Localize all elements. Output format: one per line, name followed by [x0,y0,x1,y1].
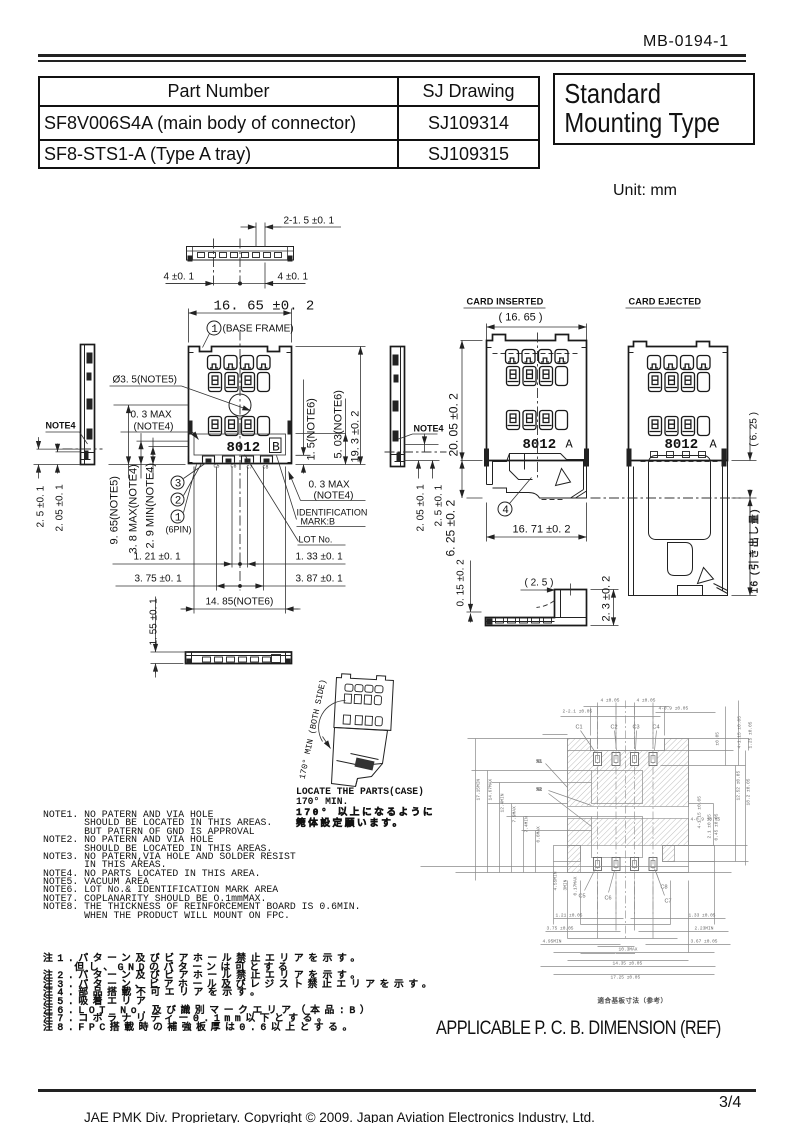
svg-text:A: A [566,438,574,452]
tilted connector body [334,674,394,731]
board outline [568,739,689,873]
svg-text:8012: 8012 [227,440,261,456]
svg-text:10.3MAX: 10.3MAX [619,947,638,953]
dim 16.65 top [189,299,315,343]
center line vertical [239,331,241,591]
svg-text:±0.05: ±0.05 [715,732,721,746]
svg-text:12.4MIN: 12.4MIN [500,793,506,812]
tray pulled out [629,461,728,596]
svg-text:18.2 ±0.05: 18.2 ±0.05 [746,778,752,805]
tray lower part [487,461,493,485]
svg-text:1. 55 ±0. 1: 1. 55 ±0. 1 [149,598,160,646]
svg-text:14. 85(NOTE6): 14. 85(NOTE6) [206,597,274,608]
svg-text:2-2.1 ±0.05: 2-2.1 ±0.05 [563,709,593,715]
svg-text:( 16. 65 ): ( 16. 65 ) [499,312,543,324]
side blocks [554,846,581,862]
centerline [537,333,539,479]
copyright [84,1110,595,1123]
svg-text:MARK:B: MARK:B [301,517,336,527]
left side dims 2.5 / 2.05 [34,449,81,464]
lower side view [486,590,587,626]
svg-text:17.25 ±0.05: 17.25 ±0.05 [611,975,641,981]
svg-text:2. 05 ±0. 1: 2. 05 ±0. 1 [55,484,66,532]
svg-text:( 2. 5 ): ( 2. 5 ) [525,578,554,589]
NOTES english [43,811,360,920]
svg-text:( 6. 25 ): ( 6. 25 ) [749,412,760,446]
svg-text:%2: %2 [537,787,543,793]
svg-text:0.6MAX: 0.6MAX [536,826,542,843]
right dims 1.5 / 5.03 / 19.3 [296,347,366,474]
svg-text:C6: C6 [605,896,612,902]
left dims 20.05 / 6.25 / 0.15 [461,341,483,499]
contact field [208,356,271,436]
dim 2.3 [591,590,619,626]
svg-text:1.21 ±0.05: 1.21 ±0.05 [556,913,583,919]
svg-text:1. 33 ±0. 1: 1. 33 ±0. 1 [296,552,344,563]
svg-text:C2: C2 [611,725,618,731]
svg-text:9. 65(NOTE5): 9. 65(NOTE5) [109,476,121,544]
dim 16.71 [487,503,587,542]
svg-text:2. 05 ±0. 1: 2. 05 ±0. 1 [416,484,427,532]
svg-text:3: 3 [175,479,182,491]
pads top [594,753,658,871]
profile dim 2-1.5 [241,216,342,247]
APPLICABLE PCB DIMENSION title [436,1018,721,1040]
svg-text:3.75 ±0.05: 3.75 ±0.05 [547,926,574,932]
svg-text:2.23MIN: 2.23MIN [695,926,714,932]
part number table [38,76,540,169]
svg-text:CARD EJECTED: CARD EJECTED [629,297,702,307]
svg-text:5. 03(NOTE6): 5. 03(NOTE6) [333,390,345,458]
svg-text:16. 65 ±0. 2: 16. 65 ±0. 2 [214,299,315,315]
svg-text:(6PIN): (6PIN) [166,525,192,535]
svg-text:4-1.15 ±0.05: 4-1.15 ±0.05 [737,716,743,749]
identification mark B boxed [270,438,282,453]
svg-text:4.95MIN: 4.95MIN [543,939,562,945]
svg-text:7.9MAX: 7.9MAX [512,806,518,823]
base frame balloon 1 [203,321,294,348]
svg-text:14.67MAX: 14.67MAX [488,779,494,801]
profile dim 4 / 4 [164,272,309,286]
balloon 4 [498,502,512,516]
svg-text:4-0.9 ±0.05: 4-0.9 ±0.05 [659,706,689,712]
svg-text:(BASE FRAME): (BASE FRAME) [223,324,294,335]
body outline with top tabs [487,335,587,461]
svg-text:19. 3 ±0. 2: 19. 3 ±0. 2 [350,411,362,463]
footer rule [38,1089,756,1092]
svg-text:1.25 ±0.05: 1.25 ±0.05 [748,721,754,748]
inner keepout rects [592,771,643,804]
svg-text:1: 1 [175,513,182,525]
hatched keepout regions [568,739,689,873]
svg-text:16. 71 ±0. 2: 16. 71 ±0. 2 [513,524,571,536]
svg-text:0.17MAX: 0.17MAX [573,876,579,895]
svg-text:0. 3 MAX: 0. 3 MAX [309,480,350,491]
NOTES japanese [43,955,436,1032]
svg-text:Ø3. 5(NOTE5): Ø3. 5(NOTE5) [113,375,177,386]
svg-text:1. 21 ±0. 1: 1. 21 ±0. 1 [134,552,182,563]
body [629,342,728,461]
svg-text:3. 8 MAX(NOTE4): 3. 8 MAX(NOTE4) [128,464,140,553]
svg-text:C1: C1 [576,725,583,731]
svg-text:NOTE4: NOTE4 [414,424,444,434]
bottom pad row [189,456,292,463]
horizontal centerline [591,497,741,499]
svg-text:3. 75 ±0. 1: 3. 75 ±0. 1 [135,574,183,585]
svg-text:4 ±0.05: 4 ±0.05 [637,698,656,704]
tray triangle mark [556,469,571,486]
svg-text:0. 3 MAX: 0. 3 MAX [131,410,172,421]
svg-text:B: B [272,440,280,455]
svg-text:(NOTE4): (NOTE4) [314,491,354,502]
double rule top [38,54,746,57]
standard mounting type box [553,73,755,145]
svg-text:3MIN: 3MIN [563,879,569,890]
identification mark label [277,456,368,527]
tiny dim labels [476,698,754,981]
unit: mm [613,182,677,200]
svg-text:2. 5 ±0. 1: 2. 5 ±0. 1 [36,485,47,527]
svg-text:4: 4 [502,505,509,517]
body outline with top notches [189,347,292,464]
svg-text:14.35 ±0.05: 14.35 ±0.05 [613,961,643,967]
svg-text:CARD INSERTED: CARD INSERTED [467,297,544,307]
profile centerlines [214,239,241,289]
long horizontal reference lines [421,867,732,873]
right dims (6.25) / 16 [732,461,757,596]
pin number balloons 3 2 1 [166,463,207,535]
svg-text:0. 15 ±0. 2: 0. 15 ±0. 2 [456,559,467,607]
pad centerlines [598,701,654,941]
svg-text:適合基板寸法（参考）: 適合基板寸法（参考） [598,996,668,1005]
svg-text:6. 25 ±0. 2: 6. 25 ±0. 2 [444,500,458,557]
svg-text:4 ±0. 1: 4 ±0. 1 [278,272,309,283]
svg-text:8012: 8012 [665,437,699,453]
svg-text:4-0.9 ±0.05: 4-0.9 ±0.05 [691,817,721,823]
svg-text:8012: 8012 [523,437,557,453]
svg-text:LOT No.: LOT No. [299,535,333,545]
dims 3.75 / 3.87 [116,574,346,588]
svg-text:12.52 ±0.05: 12.52 ±0.05 [736,770,742,800]
svg-text:%1: %1 [537,759,543,765]
vacuum hole circle [229,394,251,416]
svg-text:1. 5(NOTE6): 1. 5(NOTE6) [306,398,318,460]
bottom reflow view [186,652,292,664]
lot band [194,434,286,455]
svg-text:16 (引き出し量): 16 (引き出し量) [748,508,761,594]
svg-text:17.15MIN: 17.15MIN [476,779,482,801]
angle arc with arrow [319,701,346,742]
pad labels C1-C8 [576,725,672,905]
lot no label [245,455,346,546]
profile outline [187,247,294,262]
svg-text:4 ±0.05: 4 ±0.05 [601,698,620,704]
left dims 9.65 / 3.8 / 2.9 [109,405,189,554]
svg-text:170° MIN (BOTH SIDE): 170° MIN (BOTH SIDE) [298,678,329,780]
svg-text:4.55MIN: 4.55MIN [553,871,559,890]
top dimension lines [468,701,749,967]
svg-text:3. 87 ±0. 1: 3. 87 ±0. 1 [296,574,344,585]
svg-text:NOTE4: NOTE4 [46,421,76,431]
label dia 3.5 NOTE5 [110,375,251,411]
svg-text:3.67 ±0.05: 3.67 ±0.05 [691,939,718,945]
svg-text:C4: C4 [653,725,660,731]
svg-text:C3: C3 [633,725,640,731]
svg-text:2: 2 [175,496,182,508]
tilted tray [332,728,388,787]
dims 1.21 / 1.33 [113,467,346,614]
leaders for notes [537,759,592,827]
svg-text:C6: C6 [231,464,237,470]
label 0.3 MAX NOTE4 right [289,472,366,502]
svg-text:1.33 ±0.05: 1.33 ±0.05 [689,913,716,919]
page number 3/4 [719,1094,741,1112]
doc number MB-0194-1 [643,33,729,51]
label 0.3 MAX NOTE4 left [121,410,199,440]
svg-text:C5: C5 [579,894,586,900]
svg-text:2-1. 5 ±0. 1: 2-1. 5 ±0. 1 [284,216,335,227]
svg-text:4-1.15 ±0.05: 4-1.15 ±0.05 [697,796,703,829]
svg-text:(NOTE4): (NOTE4) [134,422,174,433]
svg-text:A: A [710,438,718,452]
svg-text:7.4MIN: 7.4MIN [524,816,530,833]
svg-text:2. 3 ±0. 2: 2. 3 ±0. 2 [601,576,613,622]
dim 1.55 [149,597,188,678]
dim 14.85 [181,597,301,610]
svg-text:2. 9 MIN(NOTE4): 2. 9 MIN(NOTE4) [145,463,157,549]
LOCATE THE PARTS text [296,787,435,831]
svg-text:20. 05 ±0. 2: 20. 05 ±0. 2 [447,393,461,457]
svg-text:1: 1 [211,324,218,336]
svg-text:4 ±0. 1: 4 ±0. 1 [164,272,195,283]
